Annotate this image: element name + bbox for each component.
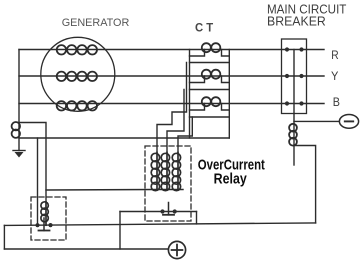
wire phase R line: [19, 49, 324, 51]
wire neutral bus left: [18, 50, 20, 151]
wire trip coil feed: [293, 114, 295, 166]
CT3 secondary bottom: [190, 116, 230, 118]
breaker pole B contacts: [285, 101, 304, 105]
wire positive riser: [119, 212, 121, 250]
wire phase B line: [19, 103, 324, 105]
svg-text:C T: C T: [195, 21, 214, 35]
svg-text:R: R: [331, 48, 338, 62]
wire earth CT bottom terminal drop: [37, 138, 39, 225]
earth fault relay coil: [41, 202, 48, 225]
ground symbol: [13, 151, 25, 158]
CT2 primary loops: [202, 70, 221, 79]
main circuit breaker box: [282, 39, 307, 114]
earth fault relay contact: [35, 218, 52, 231]
wire CT1 secondary to relay coil 1: [157, 63, 187, 153]
wire CT2 secondary to relay coil 2: [167, 90, 184, 153]
wire dc bus bottom: [4, 248, 168, 250]
CT1 primary loops: [202, 43, 221, 52]
svg-text:GENERATOR: GENERATOR: [62, 17, 130, 29]
breaker pole Y contacts: [285, 74, 304, 78]
relay coil 1: [151, 153, 159, 191]
label OverCurrent Relay: [198, 157, 265, 187]
generator G1 circle: [41, 37, 115, 111]
overcurrent relay box: [145, 146, 191, 221]
wire dc bus top: [4, 223, 315, 226]
wire to negative terminal: [294, 120, 339, 122]
wire phase Y line: [19, 75, 324, 77]
positive terminal: [168, 241, 185, 258]
svg-text:Y: Y: [331, 69, 339, 83]
breaker linkage bar: [293, 50, 295, 114]
wire CT return vertical right: [228, 50, 230, 139]
wire trip coil bottom branch: [294, 146, 316, 223]
generator winding phase R: [57, 45, 97, 54]
wire CT frame left vertical: [189, 50, 191, 139]
overcurrent relay contact: [160, 203, 176, 215]
wire CT common return to earth CT: [19, 137, 229, 139]
CT1 secondary steps: [190, 50, 230, 57]
wire earth CT top terminal: [19, 123, 46, 203]
svg-text:Relay: Relay: [214, 171, 248, 187]
earth CT secondary loops: [12, 122, 20, 138]
svg-text:B: B: [333, 95, 340, 109]
breaker pole R contacts: [285, 47, 304, 51]
CT2 secondary steps: [190, 76, 230, 83]
CT2 secondary bottom: [190, 89, 230, 91]
CT3 secondary steps: [190, 104, 230, 111]
trip coil TC: [289, 124, 297, 146]
wire relay coil common return: [46, 189, 183, 192]
wire contact to dc bus: [196, 212, 198, 224]
earth fault relay box: [31, 197, 66, 240]
wire relay contact branch: [120, 211, 197, 213]
generator winding phase B: [57, 101, 97, 110]
relay coil 2: [161, 153, 169, 191]
CT3 primary loops: [202, 97, 221, 106]
svg-text:BREAKER: BREAKER: [267, 15, 326, 29]
relay coil 3: [172, 153, 180, 191]
generator winding phase Y: [57, 72, 97, 81]
wire CT3 secondary to relay coil 3: [178, 117, 192, 153]
label MAIN CIRCUIT BREAKER: [267, 3, 347, 29]
negative terminal: [339, 115, 358, 129]
wire dc bus left riser: [3, 225, 5, 249]
CT1 secondary bottom: [190, 62, 230, 64]
